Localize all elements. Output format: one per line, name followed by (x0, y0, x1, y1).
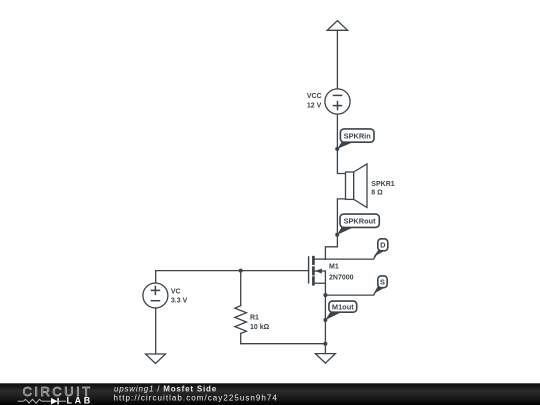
wire VC top (155, 271, 157, 284)
svg-text:VCC: VCC (307, 93, 322, 100)
power flag VCC (top triangle) (327, 21, 347, 31)
svg-text:upswing1 / Mosfet Side: upswing1 / Mosfet Side (114, 384, 217, 393)
ground left (146, 354, 166, 364)
voltage source VC (143, 283, 168, 308)
wire VCC flag to VCC source (336, 30, 338, 89)
net flag SPKRin (337, 129, 374, 149)
footer title upswing1 / Mosfet Side (114, 384, 217, 393)
wire source to flag S (325, 286, 378, 295)
value label M1 2N7000 (329, 263, 354, 281)
svg-text:S: S (380, 278, 385, 287)
wire VC bottom (155, 308, 157, 354)
node bottom junction (323, 342, 327, 346)
wire gate (156, 270, 309, 272)
svg-text:R1: R1 (250, 315, 259, 322)
svg-text:10 kΩ: 10 kΩ (250, 324, 270, 331)
logo CIRCUIT (23, 384, 93, 399)
svg-text:D: D (380, 241, 386, 250)
svg-text:SPKRin: SPKRin (344, 131, 372, 140)
transistor M1 (NMOS 2N7000) (309, 257, 326, 284)
svg-text:3.3 V: 3.3 V (171, 298, 188, 305)
value label VCC 12 V (307, 93, 322, 109)
svg-text:VC: VC (171, 288, 181, 295)
svg-text:2N7000: 2N7000 (329, 274, 354, 281)
wire R1 to source rail (241, 343, 326, 345)
svg-text:8 Ω: 8 Ω (371, 190, 383, 197)
svg-text:LAB: LAB (67, 396, 93, 405)
wire source rail (324, 271, 326, 353)
wire speaker to MOSFET drain (325, 199, 345, 259)
speaker SPKR1 (346, 164, 368, 208)
logo LAB (67, 396, 93, 405)
node S junction (323, 293, 327, 297)
logo wire resistor diode (18, 398, 67, 405)
svg-text:12 V: 12 V (307, 102, 322, 109)
node gate junction (239, 269, 243, 273)
svg-text:M1: M1 (329, 263, 339, 270)
resistor R1 (235, 271, 247, 344)
node SPKRin junction (335, 147, 339, 151)
svg-text:M1out: M1out (332, 303, 354, 312)
value label SPKR1 8 Ω (371, 181, 394, 196)
net flag D (373, 239, 388, 257)
wire drain to flag D (325, 251, 378, 259)
svg-text:http://circuitlab.com/cay225us: http://circuitlab.com/cay225usn9h74 (114, 394, 278, 403)
value label R1 10 kΩ (250, 315, 270, 331)
net flag SPKRout (337, 214, 379, 235)
svg-text:SPKR1: SPKR1 (371, 181, 394, 188)
footer bar (0, 383, 540, 405)
node SPKRout junction (335, 233, 339, 237)
svg-text:SPKRout: SPKRout (344, 217, 377, 226)
net flag M1out (325, 301, 356, 320)
footer url (114, 394, 278, 403)
wire VCC source to speaker (337, 114, 345, 173)
node M1out junction (323, 318, 327, 322)
ground right (315, 354, 335, 364)
value label VC 3.3 V (171, 288, 188, 304)
voltage source VCC (325, 89, 350, 114)
net flag S (373, 276, 387, 294)
